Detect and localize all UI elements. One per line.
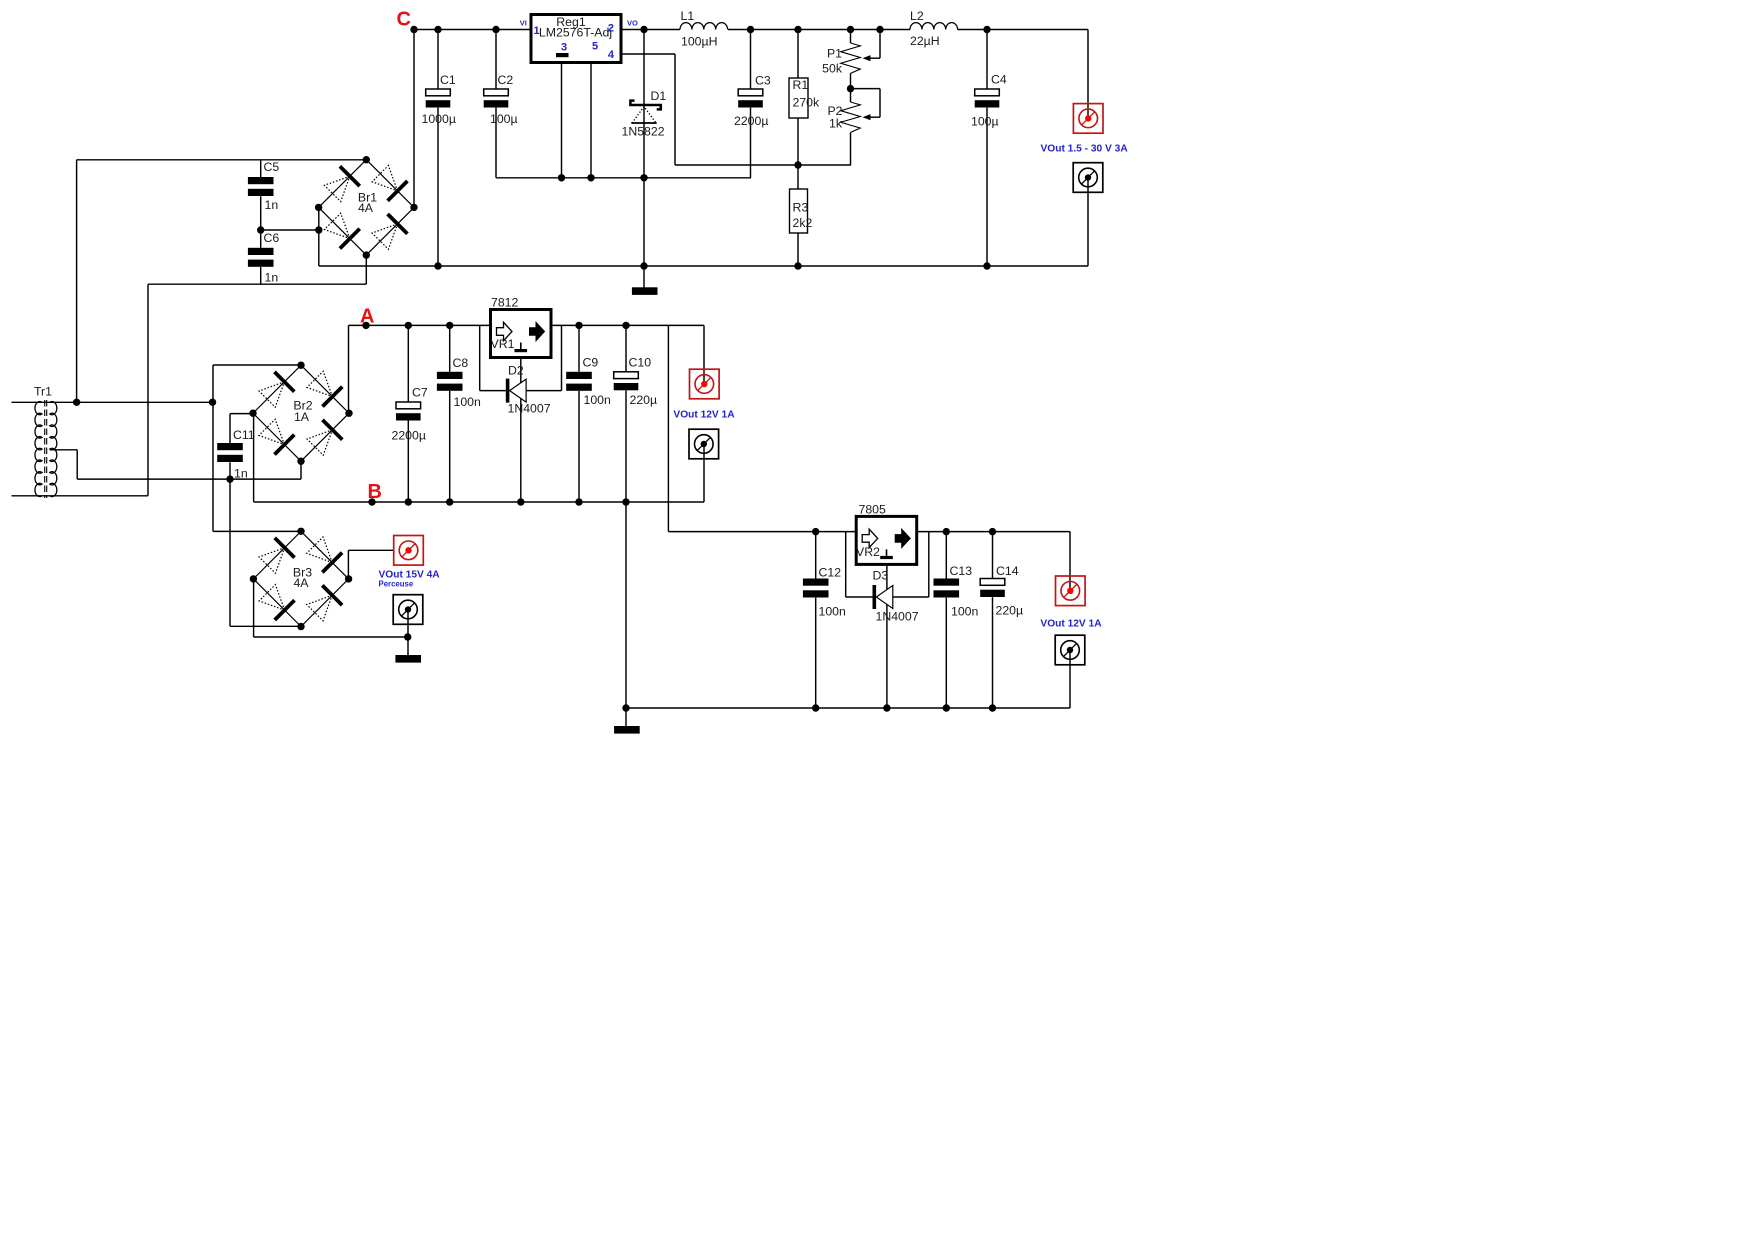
svg-text:1: 1 xyxy=(534,25,540,37)
svg-text:100µ: 100µ xyxy=(971,115,999,129)
svg-text:C6: C6 xyxy=(264,231,280,245)
capacitor C14 xyxy=(992,532,994,579)
svg-text:C: C xyxy=(397,9,411,31)
terminal VOut12A negative xyxy=(689,429,719,459)
wire Br3 AC2 xyxy=(230,625,301,627)
potentiometer P2 xyxy=(850,89,852,102)
svg-text:1A: 1A xyxy=(294,410,310,424)
svg-text:R3: R3 xyxy=(793,201,809,215)
bridge rectifier Br3 xyxy=(301,531,349,579)
wire Br2 plus up to A rail xyxy=(348,325,350,413)
svg-text:1N4007: 1N4007 xyxy=(508,402,551,416)
wire AC1 down to Br2 Br3 xyxy=(212,365,214,531)
svg-text:C5: C5 xyxy=(264,160,280,174)
capacitor C5 xyxy=(260,160,262,177)
svg-text:2200µ: 2200µ xyxy=(392,429,426,443)
diode D1 1N5822 xyxy=(643,30,645,267)
svg-text:5: 5 xyxy=(592,41,598,53)
resistor R1 xyxy=(797,30,799,79)
svg-text:4: 4 xyxy=(608,49,615,61)
bridge rectifier Br2 xyxy=(301,365,349,413)
wire C5C6 mid to Br1 minus xyxy=(261,229,319,231)
capacitor C13 xyxy=(945,532,947,579)
wire Tr1 bottom tap line xyxy=(12,495,149,497)
svg-text:D2: D2 xyxy=(508,364,524,378)
svg-text:VR2: VR2 xyxy=(856,545,880,559)
wire C node down to Br1 + output xyxy=(413,30,415,208)
svg-text:100n: 100n xyxy=(951,605,979,619)
diode D3 1N4007 xyxy=(845,532,847,597)
wire Br1 AC1 line xyxy=(77,159,366,161)
wiper P2 xyxy=(851,88,881,90)
wire to output terminal + xyxy=(1087,30,1089,119)
svg-text:C14: C14 xyxy=(996,564,1019,578)
wire 12V down to 7805 input xyxy=(667,325,669,531)
capacitor C12 xyxy=(815,532,817,579)
svg-text:R1: R1 xyxy=(793,78,809,92)
svg-text:1n: 1n xyxy=(265,271,279,285)
terminal VOut12B positive xyxy=(1056,576,1086,606)
wire pin5 down xyxy=(590,63,592,178)
bridge rectifier Br1 xyxy=(366,160,414,208)
svg-text:100µ: 100µ xyxy=(490,112,518,126)
svg-text:220µ: 220µ xyxy=(996,604,1024,618)
svg-text:1000µ: 1000µ xyxy=(422,112,456,126)
wire output terminal - to ground rail xyxy=(1087,178,1089,267)
svg-text:4A: 4A xyxy=(293,576,309,590)
capacitor C7 xyxy=(407,325,409,402)
wire Tr1 mid tap xyxy=(50,449,77,451)
svg-text:100n: 100n xyxy=(454,395,482,409)
svg-text:Tr1: Tr1 xyxy=(34,385,52,399)
capacitor C9 xyxy=(578,325,580,371)
wire VR2 ground pin xyxy=(886,564,888,708)
inductor L2 xyxy=(910,23,958,30)
capacitor C8 xyxy=(449,325,451,371)
regulator Reg1 LM2576T-Adj box xyxy=(531,15,621,63)
terminal VOut15 negative xyxy=(393,595,423,625)
svg-text:2200µ: 2200µ xyxy=(734,114,768,128)
svg-text:C11: C11 xyxy=(233,428,255,442)
capacitor C10 xyxy=(625,325,627,371)
svg-text:VI: VI xyxy=(520,19,527,28)
svg-text:VOut 12V 1A: VOut 12V 1A xyxy=(1040,619,1102,630)
wire 12V output to terminal xyxy=(703,325,705,384)
svg-text:1N4007: 1N4007 xyxy=(876,610,919,624)
svg-text:C7: C7 xyxy=(412,386,428,400)
ground symbol top section xyxy=(643,266,645,288)
svg-text:P1: P1 xyxy=(827,47,842,61)
svg-text:C13: C13 xyxy=(950,564,973,578)
transformer Tr1 windings xyxy=(35,402,42,497)
wire Br2 AC2 to mid tap line xyxy=(300,461,302,479)
terminal VOut15 positive xyxy=(394,536,424,566)
svg-text:2k2: 2k2 xyxy=(793,216,813,230)
svg-text:1k: 1k xyxy=(829,117,843,131)
svg-text:C3: C3 xyxy=(755,74,771,88)
svg-text:220µ: 220µ xyxy=(630,393,658,407)
svg-text:50k: 50k xyxy=(822,62,843,76)
wire 7805 output rail xyxy=(917,531,1070,533)
svg-text:100n: 100n xyxy=(584,393,612,407)
node C junction dot xyxy=(410,26,417,33)
wire AC1 riser xyxy=(76,160,78,402)
svg-text:1N5822: 1N5822 xyxy=(622,125,665,139)
svg-text:VO: VO xyxy=(627,19,638,28)
svg-text:L2: L2 xyxy=(910,9,924,23)
terminal VOut30 positive xyxy=(1073,104,1103,134)
svg-text:LM2576T-Adj: LM2576T-Adj xyxy=(539,26,612,40)
svg-text:VR1: VR1 xyxy=(491,337,515,351)
capacitor C3 xyxy=(750,30,752,90)
wiper P1 xyxy=(879,30,881,59)
svg-text:C9: C9 xyxy=(583,356,599,370)
svg-text:L1: L1 xyxy=(681,9,695,23)
diode D2 1N4007 xyxy=(479,325,481,390)
wire Br1 minus down to rail xyxy=(318,207,320,266)
svg-text:Perceuse: Perceuse xyxy=(379,580,414,589)
wire terminal minus to ground xyxy=(407,610,409,638)
svg-text:270k: 270k xyxy=(793,96,821,110)
capacitor C4 xyxy=(986,30,988,90)
wire pin4 feedback xyxy=(621,53,675,55)
wire pin3 down xyxy=(561,63,563,178)
inductor L1 xyxy=(680,23,728,30)
svg-text:D3: D3 xyxy=(873,569,889,583)
wire VR1 ground pin xyxy=(520,358,522,502)
wire Br3 minus path xyxy=(253,579,255,637)
wire L1 to L2 xyxy=(728,29,910,31)
wire Br1 AC2 path xyxy=(365,255,367,284)
svg-text:C12: C12 xyxy=(819,566,842,580)
wire 5V out to terminal xyxy=(1069,532,1071,591)
terminal VOut30 negative xyxy=(1073,163,1103,193)
svg-text:C2: C2 xyxy=(498,73,514,87)
wire top rail C to Reg1 input xyxy=(414,29,531,31)
capacitor C2 xyxy=(495,30,497,90)
capacitor C11 xyxy=(230,413,254,415)
svg-text:VOut 1.5 - 30 V 3A: VOut 1.5 - 30 V 3A xyxy=(1041,144,1129,155)
wire terminal to bottom rail xyxy=(1069,650,1071,708)
svg-text:C1: C1 xyxy=(440,73,456,87)
regulator VR1 7812 xyxy=(491,310,552,358)
wire Reg1 VO to L1 xyxy=(621,29,680,31)
svg-text:4A: 4A xyxy=(358,201,374,215)
potentiometer P1 xyxy=(850,30,852,44)
wire Tr1 top tap line xyxy=(12,401,213,403)
svg-text:1n: 1n xyxy=(234,467,248,481)
wire 12V terminal minus to B rail xyxy=(703,444,705,502)
svg-text:3: 3 xyxy=(561,42,567,54)
capacitor C1 xyxy=(437,30,439,90)
wire Br3 plus to terminal xyxy=(347,550,349,579)
svg-text:100n: 100n xyxy=(819,605,847,619)
svg-text:7812: 7812 xyxy=(491,296,519,310)
terminal VOut12A positive xyxy=(690,369,720,399)
svg-text:2: 2 xyxy=(608,23,614,35)
ground symbol Br3 xyxy=(407,637,409,655)
wire L2 to output xyxy=(958,29,1088,31)
svg-text:C10: C10 xyxy=(629,356,652,370)
wire inner ground rail xyxy=(496,177,751,179)
resistor R3 xyxy=(797,165,799,189)
svg-text:100µH: 100µH xyxy=(681,35,717,49)
svg-text:D1: D1 xyxy=(651,89,667,103)
wire main bottom rail xyxy=(319,265,1088,267)
wire bottom section ground rail xyxy=(626,707,1070,709)
svg-text:7805: 7805 xyxy=(859,503,887,517)
svg-text:22µH: 22µH xyxy=(910,34,940,48)
svg-text:1n: 1n xyxy=(265,198,279,212)
svg-text:VOut 12V 1A: VOut 12V 1A xyxy=(673,410,735,421)
wire B rail xyxy=(253,413,255,502)
ground symbol bottom section xyxy=(625,708,627,726)
capacitor C6 xyxy=(260,230,262,248)
regulator VR2 7805 xyxy=(856,516,917,564)
terminal VOut12B negative xyxy=(1055,635,1085,665)
svg-text:C4: C4 xyxy=(991,73,1007,87)
svg-text:C8: C8 xyxy=(453,356,469,370)
